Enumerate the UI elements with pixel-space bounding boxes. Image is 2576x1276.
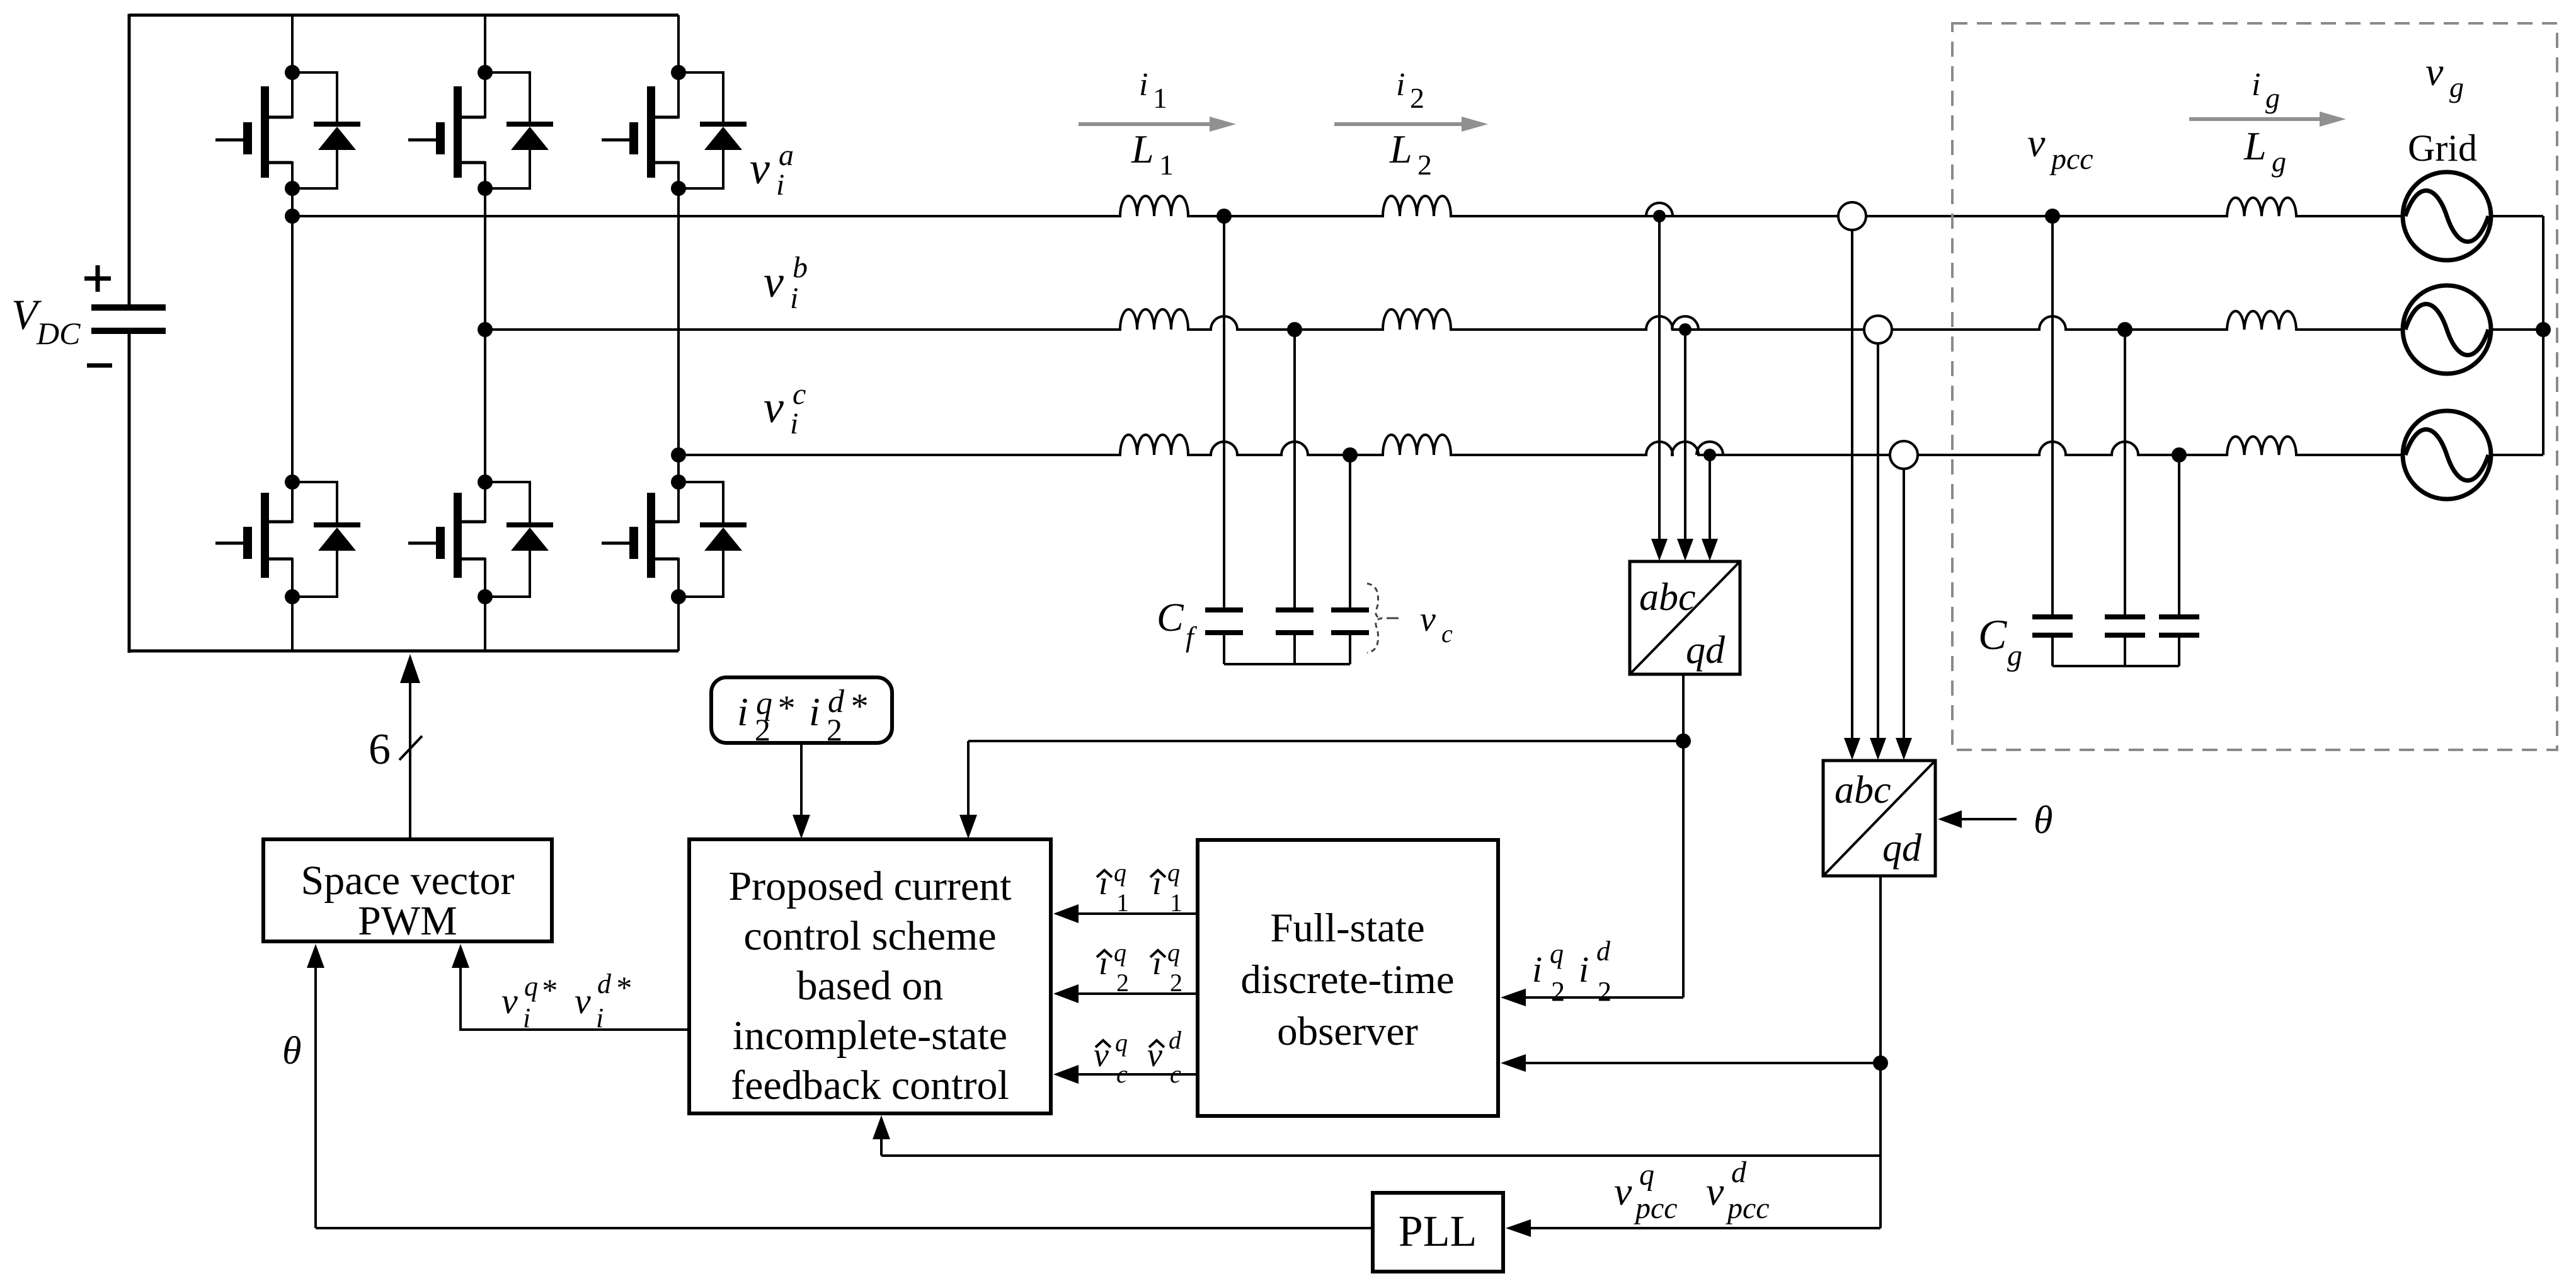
svg-text:qd: qd	[1882, 827, 1922, 870]
label Cf	[1157, 595, 1198, 653]
svg-text:L: L	[1389, 127, 1412, 171]
block Space vector PWM	[263, 839, 552, 944]
label vi_a	[750, 139, 794, 202]
svg-text:θ: θ	[2034, 799, 2052, 842]
wire grid neutral return	[2491, 216, 2551, 455]
svg-text:i: i	[1579, 949, 1589, 990]
svg-text:L: L	[1131, 127, 1154, 171]
label VDC	[11, 290, 81, 351]
label i2hat q q	[1097, 938, 1182, 997]
svg-text:θ: θ	[282, 1030, 301, 1072]
wire DC positive top rail	[129, 14, 678, 17]
svg-text:v: v	[1706, 1169, 1724, 1214]
probe vpcc measurement circle phase c	[1890, 441, 1918, 469]
svg-text:i: i	[1396, 67, 1405, 103]
svg-text:*: *	[541, 972, 556, 1008]
svg-text:i: i	[809, 689, 820, 734]
block PLL	[1373, 1193, 1503, 1272]
svg-text:Space vector: Space vector	[301, 858, 515, 904]
label vi q* d*	[501, 968, 631, 1033]
svg-text:v: v	[764, 256, 784, 307]
arrow observer estimate i2 to control	[1077, 992, 1198, 995]
svg-text:DC: DC	[36, 316, 81, 351]
dashed grid boundary box	[1952, 23, 2557, 750]
svg-text:2: 2	[1417, 149, 1432, 181]
probe vpcc measurement circle phase b	[1864, 316, 1892, 343]
svg-text:g: g	[2449, 71, 2464, 103]
svg-text:i: i	[776, 168, 784, 202]
svg-text:1: 1	[1153, 82, 1167, 114]
svg-text:g: g	[2007, 639, 2022, 672]
arrow theta into abc/qd2	[1961, 818, 2017, 820]
svg-text:i: i	[2252, 67, 2260, 103]
svg-text:c: c	[793, 377, 806, 411]
wire inverter leg b	[484, 15, 486, 651]
node pcc junction phase a	[2045, 209, 2060, 224]
wire vpcc b to abc/qd2	[1877, 343, 1879, 739]
label ig	[2252, 67, 2280, 114]
transistor Q3 phase c high-side with body diode	[602, 65, 747, 196]
svg-text:qd: qd	[1686, 629, 1726, 672]
node Cf tap phase a	[1216, 209, 1232, 224]
svg-text:v: v	[2027, 120, 2046, 165]
capacitor VDC	[91, 304, 166, 334]
label 6 gate bus tick	[369, 725, 422, 774]
svg-text:L: L	[2243, 124, 2267, 168]
probe vpcc measurement circle phase a	[1838, 202, 1866, 230]
wire Cg drop phase a	[2051, 216, 2054, 614]
arrow observer estimate i1 to control	[1077, 912, 1198, 915]
transistor Q1 phase a high-side with body diode	[215, 65, 360, 196]
svg-text:C: C	[1157, 595, 1184, 640]
wire vpcc a to abc/qd2	[1851, 230, 1853, 739]
svg-text:*: *	[776, 689, 794, 728]
source grid AC phase b	[2403, 285, 2491, 374]
svg-text:q: q	[1167, 938, 1180, 967]
svg-text:q: q	[1639, 1158, 1654, 1192]
arrow vi reference into SVPWM	[459, 967, 462, 1008]
svg-text:observer: observer	[1277, 1009, 1418, 1054]
wire theta from PLL to SVPWM	[316, 958, 1373, 1228]
node pcc junction phase c	[2172, 447, 2187, 463]
capacitor Cg phase b	[2105, 614, 2145, 666]
svg-text:2: 2	[1410, 82, 1424, 114]
svg-text:pcc: pcc	[2049, 142, 2093, 176]
block abc/qd transform 2	[1823, 761, 1935, 876]
source grid AC phase c	[2403, 411, 2491, 499]
svg-text:1: 1	[1159, 149, 1174, 181]
label i2	[1396, 67, 1424, 114]
svg-text:discrete-time: discrete-time	[1240, 957, 1454, 1003]
svg-text:d: d	[1169, 1026, 1182, 1054]
label - polarity	[87, 364, 112, 368]
node Cf tap phase c	[1342, 447, 1358, 463]
node phase c output junction	[671, 447, 686, 463]
label + polarity	[84, 265, 111, 292]
svg-text:*: *	[615, 970, 631, 1005]
svg-text:i: i	[596, 1003, 604, 1033]
wire feedback to control bottom	[881, 1154, 1882, 1157]
svg-text:2: 2	[1551, 976, 1565, 1007]
arrow i1 current direction	[1079, 122, 1211, 126]
label vc	[1387, 600, 1453, 648]
wire Cf drop phase b	[1293, 330, 1296, 607]
svg-text:q: q	[1167, 858, 1180, 887]
wire sensor c to abc/qd1	[1709, 455, 1711, 540]
svg-text:b: b	[793, 251, 808, 284]
arrow i2qd feedback into control top	[967, 741, 970, 816]
wire gate signals SVPWM to inverter	[409, 682, 411, 839]
svg-text:i: i	[790, 407, 798, 440]
svg-text:C: C	[1978, 611, 2007, 658]
block current reference i2*	[711, 677, 892, 747]
capacitor Cf phase c	[1331, 607, 1369, 664]
svg-text:2: 2	[755, 712, 770, 747]
wire Cg drop phase b	[2124, 330, 2126, 614]
svg-text:2: 2	[1116, 968, 1129, 997]
svg-text:q: q	[1115, 1028, 1128, 1057]
svg-text:g: g	[2265, 82, 2280, 114]
node phase a output junction	[285, 209, 300, 224]
wire Cf drop phase c	[1349, 455, 1351, 607]
arrow reference into control top	[800, 743, 803, 816]
wire sensor a to abc/qd1	[1658, 216, 1661, 540]
wire DC left branch	[128, 14, 131, 653]
wire inverter leg a	[291, 15, 294, 651]
wire Cg neutral bus	[2052, 665, 2179, 667]
svg-text:v: v	[575, 980, 591, 1021]
arrow vpccqd into observer	[1525, 1062, 1880, 1064]
svg-text:v: v	[750, 143, 770, 193]
svg-text:q: q	[1114, 858, 1126, 887]
svg-text:c: c	[1116, 1060, 1128, 1088]
wire phase b line	[485, 309, 2403, 330]
transistor Q4 phase a low-side with body diode	[215, 474, 360, 604]
sensor i2 pickup phase a	[1646, 203, 1673, 222]
wire vi reference from control to SVPWM	[461, 958, 689, 1030]
arrow ig current direction	[2189, 117, 2321, 121]
label vi_c	[764, 377, 806, 440]
svg-text:c: c	[1441, 619, 1453, 648]
svg-text:1: 1	[1170, 888, 1182, 917]
wire Cg drop phase c	[2178, 455, 2180, 614]
label vi_b	[764, 251, 808, 315]
label vpcc (node)	[2027, 120, 2093, 176]
svg-text:v: v	[1614, 1169, 1632, 1214]
sensor i2 pickup phase c	[1697, 442, 1723, 461]
svg-text:d: d	[1731, 1156, 1747, 1189]
svg-text:PLL: PLL	[1399, 1207, 1477, 1256]
svg-text:q: q	[1114, 938, 1126, 967]
svg-text:Full-state: Full-state	[1270, 905, 1425, 951]
capacitor Cg phase c	[2159, 614, 2199, 666]
transistor Q6 phase c low-side with body diode	[602, 474, 747, 604]
svg-text:pcc: pcc	[1634, 1192, 1678, 1225]
svg-text:based on: based on	[797, 963, 944, 1009]
label Cg	[1978, 611, 2022, 672]
svg-text:v: v	[2425, 49, 2444, 94]
node phase b output junction	[478, 322, 493, 337]
svg-text:2: 2	[1170, 968, 1182, 997]
transistor Q5 phase b low-side with body diode	[408, 474, 553, 604]
wire phase c line	[678, 435, 2403, 455]
arrow observer estimate vc to control	[1077, 1073, 1198, 1076]
svg-text:PWM: PWM	[358, 898, 457, 944]
source grid AC phase a	[2403, 172, 2491, 260]
arrow feedback into control bottom	[880, 1138, 883, 1156]
svg-text:feedback control: feedback control	[731, 1062, 1009, 1108]
arrow vpccqd into PLL	[1530, 1227, 1880, 1229]
svg-text:i: i	[523, 1003, 530, 1033]
brace vc	[1367, 583, 1382, 653]
block abc/qd transform 1	[1630, 561, 1740, 674]
label L1	[1131, 127, 1174, 181]
label i2q i2d (observer input)	[1532, 936, 1611, 1007]
svg-text:6: 6	[369, 725, 391, 774]
wire DC negative bottom rail	[129, 650, 678, 653]
wire inverter leg c	[677, 15, 680, 651]
node pcc junction phase b	[2117, 322, 2132, 337]
node Cf tap phase b	[1287, 322, 1302, 337]
svg-text:v: v	[1420, 600, 1436, 639]
svg-text:g: g	[2272, 146, 2286, 178]
svg-text:incomplete-state: incomplete-state	[733, 1013, 1007, 1059]
label i1hat q q	[1097, 858, 1182, 917]
svg-text:control scheme: control scheme	[743, 913, 996, 959]
svg-text:v: v	[764, 382, 784, 432]
block proposed current control scheme	[689, 839, 1051, 1113]
svg-text:*: *	[849, 687, 867, 726]
svg-text:2: 2	[1598, 976, 1611, 1007]
transistor Q2 phase b high-side with body diode	[408, 65, 553, 196]
svg-text:a: a	[779, 139, 794, 172]
svg-text:1: 1	[1116, 888, 1129, 917]
svg-text:abc: abc	[1639, 576, 1696, 619]
arrow i2qd into observer	[1525, 996, 1683, 999]
wire i2qd output of abc/qd1	[968, 674, 1691, 997]
svg-text:abc: abc	[1835, 769, 1891, 812]
label i1	[1139, 67, 1167, 114]
arrow i2 current direction	[1334, 122, 1463, 126]
capacitor Cf phase a	[1205, 607, 1243, 664]
svg-text:q: q	[1550, 938, 1564, 969]
sensor i2 pickup phase b	[1672, 316, 1698, 336]
capacitor Cg phase a	[2032, 614, 2073, 666]
svg-text:i: i	[1532, 949, 1542, 990]
svg-text:q: q	[524, 971, 538, 1002]
wire Cf drop phase a	[1223, 216, 1225, 607]
label vpcc q d	[1614, 1156, 1770, 1225]
svg-text:d: d	[597, 968, 612, 999]
svg-text:i: i	[790, 282, 798, 315]
wire Cf neutral bus	[1224, 663, 1350, 665]
wire vpccqd output of abc/qd2	[1873, 876, 1888, 1228]
wire vpcc c to abc/qd2	[1903, 469, 1905, 739]
svg-text:v: v	[501, 980, 518, 1021]
svg-text:d: d	[1596, 936, 1611, 967]
block full-state observer	[1198, 840, 1498, 1116]
arrow theta into SVPWM	[314, 967, 317, 1046]
label Lg	[2243, 124, 2286, 178]
label vg	[2425, 49, 2464, 103]
wire phase a line	[292, 196, 2403, 216]
svg-text:Grid: Grid	[2408, 127, 2477, 169]
svg-text:i: i	[1139, 67, 1148, 103]
svg-text:c: c	[1170, 1060, 1181, 1088]
label L2	[1389, 127, 1432, 181]
capacitor Cf phase b	[1276, 607, 1314, 664]
wire sensor b to abc/qd1	[1684, 330, 1686, 540]
svg-text:Proposed current: Proposed current	[728, 863, 1011, 909]
svg-text:i: i	[737, 689, 748, 734]
svg-text:pcc: pcc	[1726, 1192, 1770, 1225]
label vchat q d	[1094, 1026, 1182, 1088]
svg-text:2: 2	[827, 712, 842, 747]
